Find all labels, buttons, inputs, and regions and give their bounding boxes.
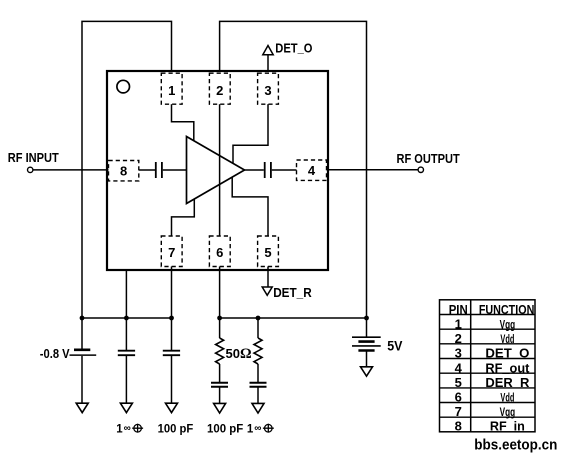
svg-text:2: 2 [216,83,223,98]
wire: IC ground stub to left rail [125,271,127,318]
wire: RF input to pin 8 [33,169,109,171]
svg-text:6: 6 [455,390,462,405]
table column divider [470,300,472,432]
ground (C1) [120,403,132,412]
table row 1 Vgg [455,316,516,331]
op-amp A1 [187,137,245,204]
svg-text:5: 5 [264,245,271,260]
svg-text:∞: ∞ [254,423,261,434]
capacitor C4 1uF [250,383,267,387]
pin 4 [297,160,327,180]
RF INPUT terminal [28,167,33,172]
wire: rail to battery B2 [366,318,368,337]
node: junction R1/rail [217,316,222,321]
svg-text:100 pF: 100 pF [158,423,194,435]
pin-1 index circle [117,80,130,93]
svg-text:RF INPUT: RF INPUT [8,151,59,165]
svg-text:8: 8 [120,164,127,179]
svg-text:3: 3 [455,346,462,361]
wire: pin1 internal to amp input side [172,104,194,141]
wire: pin2 internal vertical through amp [219,104,221,236]
wire: pin7 down to left rail [171,267,173,319]
svg-text:DET_O: DET_O [485,346,529,361]
wire: pin3 internal to amp top-right [233,104,268,164]
node: junction C1/rail [124,316,129,321]
wire: battery B1 to ground [81,356,83,403]
wire: pin3 up to DET_O [267,55,269,73]
wire: C4 to ground [257,388,259,404]
svg-text:RF OUTPUT: RF OUTPUT [397,152,461,166]
svg-text:4: 4 [455,360,463,375]
svg-text:4: 4 [308,163,316,178]
capacitor C3 100pF [211,383,228,387]
battery B1 -0.8V [70,350,97,355]
svg-text:1: 1 [116,423,123,435]
wire: battery B2 to ground [366,352,368,367]
table row 2 Vdd [455,331,515,346]
wire: left supply rail [82,317,172,319]
battery B2 5V [352,337,381,350]
wire: C3 to ground [219,388,221,404]
wire: C_out to pin 4 [272,169,297,171]
DET_O terminal arrow [263,46,273,55]
svg-text:RF_out: RF_out [485,360,530,375]
wire: pin6 down to right rail [219,267,221,319]
table row 4 RF_out [455,360,530,375]
pin 6 [209,236,230,267]
capacitor C2 100pF [163,351,180,356]
svg-text:5V: 5V [387,338,402,353]
pin 5 [258,236,279,267]
svg-text:Vgg: Vgg [500,319,516,331]
svg-text:8: 8 [455,418,462,433]
wire: pin2 to top rail right down to 5V rail [220,21,367,318]
ground (C3) [214,403,226,413]
node: junction 5V/rail [364,316,369,321]
svg-text:DET_R: DET_R [273,286,312,300]
pin function table frame [440,300,536,432]
svg-text:1: 1 [455,316,462,331]
wire: rail to R2 [257,318,259,338]
resistor R2 [254,338,262,364]
capacitor C_out [265,162,271,178]
svg-text:50Ω: 50Ω [226,346,252,362]
svg-text:Vgg: Vgg [500,407,516,419]
table row 8 RF_in [455,418,525,433]
wire: C_in to amp [163,169,187,171]
svg-text:7: 7 [168,245,175,260]
capacitor C1 1uF [118,351,135,356]
svg-text:3: 3 [264,83,271,98]
svg-text:PIN: PIN [449,302,468,317]
wire: rail to battery B1 [81,318,83,349]
pin 3 [258,73,279,104]
svg-text:Vdd: Vdd [500,334,514,346]
svg-text:DER_R: DER_R [485,375,530,390]
capacitor C_in [156,162,162,178]
ground (C4) [252,403,264,413]
wire: pin5 down to DET_R [267,267,269,288]
svg-text:∞: ∞ [124,423,131,434]
wire: rail to R1 [219,318,221,338]
node: junction C2/rail [169,316,174,321]
table row 3 DET_O [455,346,530,361]
svg-text:-0.8 V: -0.8 V [40,347,70,361]
svg-text:Vdd: Vdd [500,393,514,405]
svg-text:FUNCTION: FUNCTION [479,302,535,317]
RF OUTPUT terminal [418,167,423,172]
pin 7 [161,236,182,267]
table row lines [440,315,536,418]
svg-text:7: 7 [455,404,462,419]
table row 5 DER_R [455,375,530,390]
wire: C2 to ground [171,356,173,403]
ground (C2) [166,403,178,412]
pin 8 [109,161,139,181]
svg-text:DET_O: DET_O [275,42,312,56]
wire: amp out to C_out [245,169,264,171]
resistor R1 50ohm [216,338,224,364]
pin 2 [209,73,230,104]
wire: right supply rail [220,317,367,319]
DET_R terminal arrow [262,287,272,295]
wire: pin8 to C_in [139,169,155,171]
wire: C1 to ground [125,356,127,403]
wire: rail to C1 [125,318,127,350]
wire: pin1 to top-left rail down to left supply rail [82,21,172,318]
svg-text:100 pF: 100 pF [207,423,243,435]
wire: pin 4 to RF output [327,169,419,171]
pin 1 [161,73,182,104]
ground (B1) [76,403,88,412]
svg-text:bbs.eetop.cn: bbs.eetop.cn [474,437,557,454]
svg-text:5: 5 [455,375,462,390]
label 1uF (C1) [116,423,143,435]
table header PIN / FUNCTION [449,302,535,317]
wire: R2 to C4 [257,364,259,382]
table row 7 Vgg [455,404,516,419]
table row 6 Vdd [455,390,515,405]
IC U1 body [107,71,328,270]
svg-text:1: 1 [168,83,175,98]
wire: R1 to C3 [219,364,221,382]
wire: pin5 internal to amp lower-right [232,177,268,236]
wire: pin7 internal to amp lower-left [172,199,195,236]
ground (B2) [361,367,373,376]
svg-text:RF_in: RF_in [490,418,525,433]
svg-text:1: 1 [247,423,254,435]
node: junction battery1/rail [80,316,85,321]
svg-text:6: 6 [216,245,223,260]
svg-text:2: 2 [455,331,462,346]
wire: rail to C2 [171,318,173,350]
node: junction R2/rail [256,316,261,321]
label 1uF (C4) [247,423,274,435]
